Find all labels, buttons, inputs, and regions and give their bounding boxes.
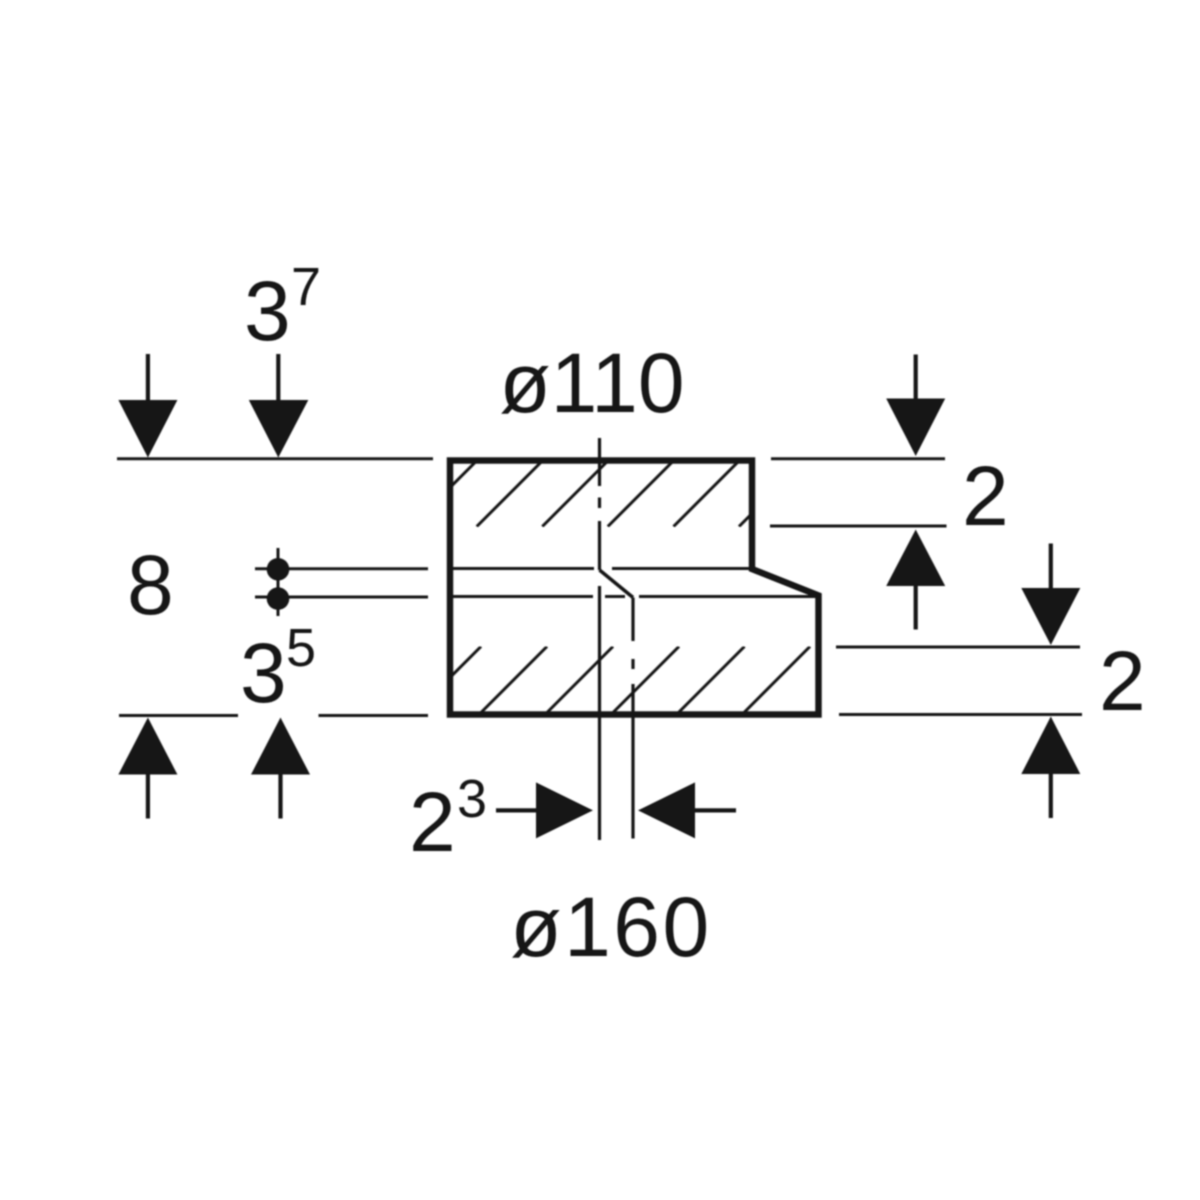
- wall extension line left lower: [598, 586, 601, 840]
- centerline right lower: [631, 598, 634, 839]
- svg-text:2: 2: [962, 449, 1009, 543]
- dimension lines: [117, 459, 1082, 716]
- inner socket line upper: [453, 567, 749, 570]
- right dim line y714.5: [839, 713, 1082, 716]
- svg-text:3: 3: [240, 626, 287, 720]
- svg-text:5: 5: [286, 618, 316, 678]
- right dim line y647: [836, 646, 1080, 649]
- centerline upper dash-dot: [598, 438, 601, 570]
- svg-text:7: 7: [291, 257, 321, 317]
- svg-text:2: 2: [1099, 634, 1146, 728]
- svg-text:2: 2: [409, 775, 456, 869]
- reducer body outline: [450, 461, 819, 715]
- svg-text:3: 3: [244, 264, 291, 358]
- line through dots: [277, 548, 280, 616]
- centerline jog: [600, 570, 634, 598]
- arrow tails: [148, 354, 1051, 819]
- bottom-left dim line: [119, 714, 238, 717]
- dots on extension lines: [267, 558, 290, 581]
- right dim line y526: [770, 525, 947, 528]
- top-right dim line: [771, 457, 945, 460]
- inner socket line lower: [453, 595, 816, 598]
- svg-text:3: 3: [457, 769, 487, 829]
- svg-text:ø160: ø160: [510, 880, 711, 974]
- svg-text:ø110: ø110: [499, 336, 684, 430]
- arrowheads: [118, 400, 177, 458]
- svg-text:8: 8: [127, 538, 174, 632]
- top-left dim line: [117, 457, 433, 460]
- hatching upper band: [411, 460, 806, 527]
- mid-left extension lines: [255, 567, 428, 570]
- hatching lower band: [415, 647, 810, 713]
